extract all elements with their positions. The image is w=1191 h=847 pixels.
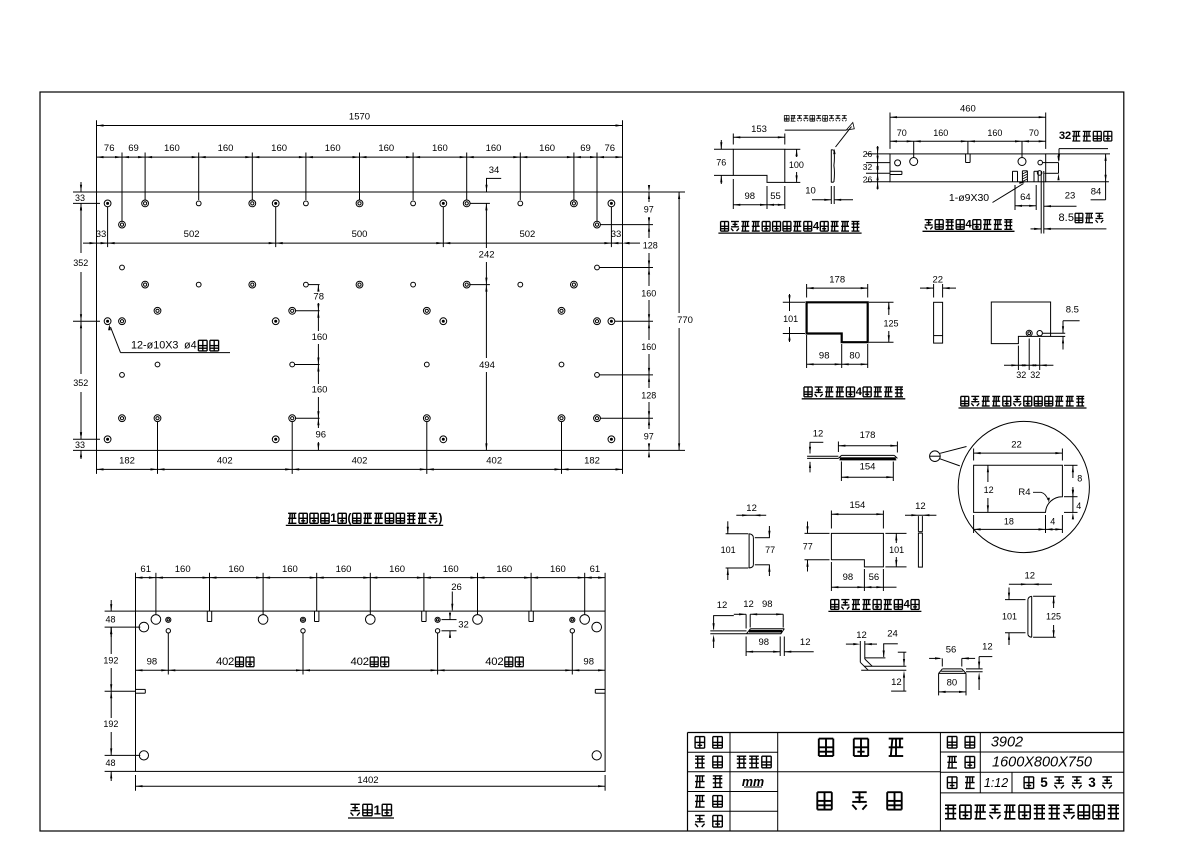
svg-text:153: 153 <box>751 124 767 135</box>
part A dim 10 <box>830 186 832 204</box>
dim 770 <box>678 192 680 313</box>
svg-text:12: 12 <box>856 630 867 641</box>
svg-text:178: 178 <box>860 430 876 441</box>
svg-text:76: 76 <box>104 143 115 154</box>
svg-text:160: 160 <box>218 143 234 154</box>
svg-text:61: 61 <box>590 564 601 575</box>
svg-text:1: 1 <box>330 512 337 525</box>
part A dim 100 <box>785 148 801 150</box>
svg-text:4: 4 <box>813 220 820 232</box>
svg-text:12: 12 <box>743 599 754 610</box>
left dim chain 33/352/352/33 <box>73 191 96 193</box>
angle profile <box>859 641 861 662</box>
svg-text:12: 12 <box>915 501 926 512</box>
panel: desktop under-board outline <box>97 192 623 450</box>
svg-text:3: 3 <box>1088 775 1096 790</box>
detail marker symbol <box>930 451 941 462</box>
svg-text:69: 69 <box>128 143 139 154</box>
svg-text:78: 78 <box>313 291 324 302</box>
svg-text:32: 32 <box>1030 370 1040 380</box>
dim 12 right <box>784 651 813 653</box>
svg-text:182: 182 <box>119 456 135 467</box>
svg-text:18: 18 <box>1004 516 1014 526</box>
dim 32 pair <box>442 619 457 621</box>
svg-text:160: 160 <box>432 143 448 154</box>
svg-text:84: 84 <box>1091 187 1102 198</box>
left strip dim 77 <box>755 537 770 539</box>
svg-text:160: 160 <box>641 342 656 352</box>
svg-text:101: 101 <box>1002 611 1017 621</box>
svg-text:26: 26 <box>863 175 873 185</box>
svg-text:192: 192 <box>103 719 118 729</box>
svg-text:32: 32 <box>458 619 469 630</box>
dims 98 56 <box>830 562 832 591</box>
svg-text:101: 101 <box>721 545 736 555</box>
part B dim 460 <box>889 113 891 149</box>
svg-text:12: 12 <box>984 485 994 495</box>
part A dim 153 <box>732 134 734 145</box>
dim 1402 <box>135 775 137 791</box>
panel2 top row holes <box>151 615 161 625</box>
svg-text:1600X800X750: 1600X800X750 <box>992 755 1092 771</box>
svg-text:32: 32 <box>1016 370 1026 380</box>
svg-text:4: 4 <box>965 219 972 231</box>
svg-text:56: 56 <box>869 572 880 583</box>
part B bottom slots <box>1012 171 1014 182</box>
svg-text:160: 160 <box>271 143 287 154</box>
svg-text:500: 500 <box>352 229 368 240</box>
svg-text:96: 96 <box>316 429 327 440</box>
part B left edge slot <box>890 170 902 172</box>
svg-text:125: 125 <box>1046 611 1061 621</box>
dim 78/160/160/96 chain <box>308 284 319 286</box>
right dim chain 97/128/160/160/128/97 <box>623 191 686 193</box>
svg-text:4: 4 <box>904 599 911 611</box>
svg-text:48: 48 <box>105 758 115 768</box>
title center <box>819 738 834 740</box>
svg-text:192: 192 <box>103 655 118 665</box>
part B caption <box>925 219 933 221</box>
part B outline <box>890 154 1046 182</box>
part B left chain 26/32/26 <box>866 153 890 155</box>
svg-text:160: 160 <box>378 143 394 154</box>
svg-text:160: 160 <box>486 143 502 154</box>
svg-text:69: 69 <box>580 143 591 154</box>
part C dim 125 <box>869 301 894 303</box>
dim 154 strip <box>840 462 842 482</box>
part C dim 101 <box>783 301 805 303</box>
low strip dim 101 <box>1005 599 1026 601</box>
svg-text:70: 70 <box>897 128 907 138</box>
panel2 corner holes <box>139 622 149 632</box>
svg-text:160: 160 <box>550 564 566 575</box>
dim 242/494 chain <box>470 202 490 204</box>
panel1 caption <box>288 512 296 514</box>
svg-text:23: 23 <box>1065 191 1076 202</box>
svg-text:12-ø10X3: 12-ø10X3 <box>131 339 178 351</box>
part B dim 70/160/160/70 <box>890 140 1046 142</box>
svg-text:34: 34 <box>489 165 500 176</box>
panel2 small hole pairs <box>166 617 171 622</box>
svg-text:101: 101 <box>889 545 904 555</box>
part C caption <box>804 386 812 388</box>
svg-text:100: 100 <box>789 160 804 170</box>
part B holes <box>895 160 901 166</box>
left strip <box>748 534 750 568</box>
molding strip 178/154 <box>807 455 838 457</box>
svg-text:4: 4 <box>856 386 863 398</box>
dim 26 hook <box>451 592 453 611</box>
detail dim 12 <box>987 465 989 482</box>
part B 8.5 slot lines <box>1040 171 1042 234</box>
part D dims 32 32 <box>1017 346 1019 370</box>
dim 98/402 drill row <box>136 669 606 671</box>
svg-text:12: 12 <box>717 600 728 611</box>
strip 22 <box>934 302 943 343</box>
svg-text:97: 97 <box>644 431 654 441</box>
dim row 76/69/160... <box>97 156 623 158</box>
svg-text:26: 26 <box>451 582 462 593</box>
leader 12-o10X3 o4 through-hole <box>111 327 121 353</box>
svg-text:48: 48 <box>105 614 115 624</box>
svg-text:12: 12 <box>891 677 902 688</box>
svg-text:4: 4 <box>1050 516 1055 526</box>
svg-text:26: 26 <box>863 149 873 159</box>
part C dim 178 <box>806 284 808 298</box>
svg-text:12: 12 <box>813 429 824 440</box>
svg-text:22: 22 <box>1011 440 1022 451</box>
svg-text:160: 160 <box>312 332 328 343</box>
bottom board outline <box>831 533 883 567</box>
svg-text:128: 128 <box>643 240 658 250</box>
svg-text:128: 128 <box>641 390 656 400</box>
svg-text:402: 402 <box>486 456 502 467</box>
title labels left <box>694 737 696 749</box>
svg-text:5: 5 <box>1040 775 1048 790</box>
svg-text:12: 12 <box>1025 570 1036 581</box>
low strip dim 125 <box>1033 595 1056 597</box>
panel: back board outline <box>136 611 606 771</box>
dim 77 <box>805 532 830 534</box>
svg-text:770: 770 <box>677 315 693 326</box>
svg-text:8: 8 <box>1077 473 1082 483</box>
svg-text:56: 56 <box>946 645 957 656</box>
svg-text:4: 4 <box>1076 501 1081 511</box>
svg-text:): ) <box>438 512 442 525</box>
svg-text:1: 1 <box>374 803 382 818</box>
svg-text:R4: R4 <box>1018 487 1030 498</box>
svg-text:32: 32 <box>863 162 873 172</box>
low strip <box>1027 600 1029 635</box>
svg-text:125: 125 <box>883 318 898 328</box>
part B hatched hole 9X30 <box>1021 171 1023 182</box>
svg-text:(: ( <box>348 512 352 525</box>
detail dim 22 <box>973 449 975 461</box>
dim 178 strip <box>837 442 839 453</box>
svg-text:2: 2 <box>228 656 234 668</box>
svg-text:98: 98 <box>843 572 854 583</box>
svg-text:98: 98 <box>819 350 830 361</box>
part A outline <box>733 149 785 182</box>
svg-text:33: 33 <box>611 229 622 240</box>
detail circle <box>958 421 1089 552</box>
bottom dim 182/402/402/402/182 <box>96 450 98 474</box>
part A caption <box>721 221 729 223</box>
svg-text:154: 154 <box>860 461 876 472</box>
svg-text:55: 55 <box>770 191 781 202</box>
svg-text:502: 502 <box>519 229 535 240</box>
svg-text:24: 24 <box>887 629 898 640</box>
panel2 left chain 48/192/192/48 <box>105 610 136 612</box>
svg-text:5: 5 <box>1068 212 1074 224</box>
svg-text:160: 160 <box>987 128 1002 138</box>
svg-text:61: 61 <box>140 564 151 575</box>
svg-text:ø4: ø4 <box>184 339 197 351</box>
panel2 top slots <box>206 611 208 621</box>
svg-text:402: 402 <box>352 456 368 467</box>
svg-text:460: 460 <box>960 103 976 114</box>
dim 34 hook <box>486 177 501 179</box>
part A dim 76 <box>714 148 733 150</box>
plinth profile <box>942 668 962 670</box>
svg-text:502: 502 <box>184 229 200 240</box>
svg-text:76: 76 <box>605 143 616 154</box>
svg-text:98: 98 <box>759 637 770 648</box>
panel2 mid edge slots <box>136 688 146 690</box>
svg-text:352: 352 <box>73 378 88 388</box>
svg-text:12: 12 <box>800 637 811 648</box>
svg-text:160: 160 <box>325 143 341 154</box>
svg-text:178: 178 <box>829 274 845 285</box>
svg-text:154: 154 <box>849 500 865 511</box>
svg-text:160: 160 <box>312 385 328 396</box>
svg-text:8: 8 <box>1058 212 1064 224</box>
svg-text:352: 352 <box>73 258 88 268</box>
part D caption <box>961 395 969 397</box>
dim 101 right <box>885 532 906 534</box>
svg-text:1:12: 1:12 <box>984 776 1008 790</box>
svg-text:160: 160 <box>539 143 555 154</box>
svg-text:80: 80 <box>849 350 860 361</box>
svg-text:160: 160 <box>389 564 405 575</box>
dim 12b <box>898 651 907 653</box>
svg-text:1-ø9X30: 1-ø9X30 <box>949 192 989 204</box>
svg-text:160: 160 <box>164 143 180 154</box>
panel2 top dim row 61/160x8/61 <box>136 577 606 579</box>
part D outline <box>991 302 1050 344</box>
svg-text:3902: 3902 <box>991 734 1023 750</box>
left strip dim 101 <box>726 533 749 535</box>
part A dims 98 55 <box>732 179 734 209</box>
part C dims 98 80 <box>806 335 808 368</box>
border frame <box>40 92 1124 831</box>
right strip <box>917 516 919 532</box>
part B dim 84 <box>1046 153 1110 155</box>
detail shape <box>974 465 1063 512</box>
svg-text:1570: 1570 <box>349 112 370 123</box>
svg-text:12: 12 <box>746 503 757 514</box>
svg-text:160: 160 <box>641 289 656 299</box>
part B top slot <box>965 154 967 163</box>
svg-text:8.5: 8.5 <box>1066 305 1079 316</box>
svg-text:242: 242 <box>479 249 495 260</box>
svg-text:2: 2 <box>363 656 369 668</box>
svg-text:12: 12 <box>982 642 993 653</box>
svg-text:402: 402 <box>217 456 233 467</box>
dim 154 <box>830 511 832 529</box>
part A side strip <box>830 150 832 183</box>
svg-text:98: 98 <box>583 656 594 667</box>
svg-text:160: 160 <box>933 128 948 138</box>
panel1 holes <box>104 200 111 207</box>
svg-text:160: 160 <box>496 564 512 575</box>
detail dims 18 and 4 bottom <box>973 515 975 533</box>
svg-text:77: 77 <box>803 541 813 551</box>
dim 1570 <box>96 120 98 192</box>
part B dim 64 <box>1014 185 1016 210</box>
svg-text:33: 33 <box>75 440 85 450</box>
title right labels <box>947 736 957 738</box>
svg-text:182: 182 <box>584 456 600 467</box>
svg-text:1402: 1402 <box>357 775 378 786</box>
svg-text:22: 22 <box>933 275 944 286</box>
svg-text:160: 160 <box>282 564 298 575</box>
svg-text:160: 160 <box>443 564 459 575</box>
svg-text:98: 98 <box>147 656 158 667</box>
detail dims 8 and 4 right <box>1064 464 1078 466</box>
title block grid <box>688 732 1124 734</box>
part B dim 23 <box>1044 205 1077 207</box>
svg-text:2: 2 <box>497 656 503 668</box>
dim 502/500/502 row <box>83 242 623 244</box>
panel2 caption <box>351 803 360 805</box>
svg-text:10: 10 <box>805 186 816 197</box>
part D holes <box>1026 330 1032 336</box>
svg-text:64: 64 <box>1020 192 1031 203</box>
svg-text:70: 70 <box>1029 128 1039 138</box>
dim 98 bottom <box>745 637 747 657</box>
svg-text:80: 80 <box>947 678 958 689</box>
svg-text:77: 77 <box>765 545 775 555</box>
svg-text:2: 2 <box>1065 130 1071 142</box>
svg-text:33: 33 <box>96 229 107 240</box>
svg-text:98: 98 <box>745 191 756 202</box>
svg-text:160: 160 <box>228 564 244 575</box>
molding profile lines <box>710 630 746 632</box>
svg-text:494: 494 <box>479 360 495 371</box>
svg-text:97: 97 <box>644 205 654 215</box>
svg-text:160: 160 <box>175 564 191 575</box>
svg-text:101: 101 <box>783 314 798 324</box>
svg-text:160: 160 <box>336 564 352 575</box>
svg-text:76: 76 <box>716 157 726 167</box>
part C outline thick <box>807 302 868 342</box>
part A machining note <box>784 114 789 116</box>
svg-text:98: 98 <box>762 599 773 610</box>
bottom board caption <box>831 599 839 601</box>
svg-text:33: 33 <box>75 193 85 203</box>
